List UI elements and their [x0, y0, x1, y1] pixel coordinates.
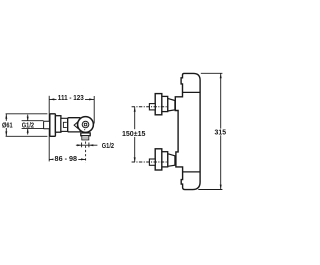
dimension G1/2 outlet ticks — [81, 143, 83, 148]
dimension 150±15 arrows — [134, 107, 136, 112]
outlet thread stub — [82, 136, 89, 140]
dimension 86-98 line — [49, 158, 85, 160]
dimension G1/2 left line+arrows — [27, 115, 29, 121]
bottom arm escutcheon — [162, 152, 168, 167]
connector ring — [61, 118, 68, 131]
dimension Ø61 text — [2, 121, 14, 128]
dimension 111-123 text — [57, 94, 86, 101]
top arm stub — [149, 104, 155, 110]
extension line right (handle front, tangent to knob) — [93, 96, 95, 124]
escutcheon — [55, 116, 61, 133]
svg-text:Ø61: Ø61 — [2, 122, 13, 130]
ring bracket detail — [63, 122, 66, 127]
top arm taper — [168, 98, 175, 111]
dimension 86-98 arrows — [50, 158, 55, 160]
dimension Ø61 extension lines — [6, 113, 48, 115]
dimension 111-123 line — [49, 98, 94, 100]
dimension 150±15 line — [134, 107, 136, 130]
dimension G1/2 left extension lines — [22, 120, 44, 122]
bottom arm stub — [149, 159, 155, 165]
valve body — [68, 118, 81, 132]
dimension G1/2 outlet arrows — [77, 144, 81, 146]
dimension Ø61 arrows — [5, 114, 7, 119]
side body outline — [175, 73, 200, 189]
head seam — [183, 91, 201, 93]
extension line left (wall face) — [48, 96, 50, 162]
outlet box seam — [183, 171, 201, 173]
bottom arm flange — [155, 149, 162, 170]
svg-text:315: 315 — [215, 128, 227, 136]
top arm flange — [155, 94, 162, 115]
bottom arm taper — [168, 154, 175, 167]
knob inner circle — [82, 121, 89, 128]
dimension 315 line — [220, 73, 222, 128]
outlet thread lines — [82, 136, 88, 138]
wall flange Ø61 — [50, 114, 56, 137]
top arm escutcheon — [162, 96, 168, 111]
outlet collar — [81, 133, 90, 136]
bottom arm centerline — [132, 161, 169, 163]
svg-text:G1/2: G1/2 — [22, 122, 34, 130]
svg-text:111 - 123: 111 - 123 — [58, 94, 84, 102]
dimension 86-98 text — [54, 155, 79, 162]
dimension 315 extension lines — [201, 72, 223, 74]
knob index tick — [84, 129, 86, 130]
svg-text:G1/2: G1/2 — [102, 142, 114, 150]
dimension G1/2 outlet line — [76, 144, 98, 146]
svg-text:150±15: 150±15 — [122, 130, 146, 138]
knob center square — [84, 123, 87, 126]
outlet axis dashed — [85, 142, 87, 163]
svg-text:86 - 98: 86 - 98 — [55, 155, 78, 163]
dimension 111-123 arrows — [50, 98, 55, 100]
dimension 315 arrows — [220, 74, 222, 79]
index wedge — [74, 122, 77, 128]
handle knob circle — [78, 117, 94, 133]
wall stub G1/2 — [44, 121, 50, 129]
top arm centerline — [132, 106, 169, 108]
dimension Ø61 line — [5, 114, 7, 137]
